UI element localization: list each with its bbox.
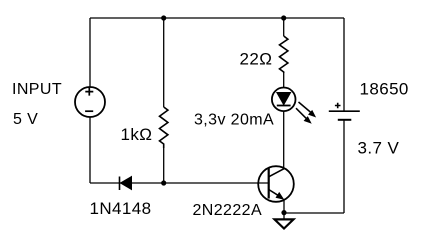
svg-text:5 V: 5 V [13,111,38,128]
emitter diagonal with arrow [269,190,281,198]
wire mid vertical lower [163,148,165,183]
battery B1 18650 [329,103,360,120]
wire emitter to node [283,199,285,219]
svg-text:22Ω: 22Ω [240,50,273,69]
wire left upper [89,18,91,87]
wire led branch upper [283,18,285,36]
wire led to collector [283,111,285,168]
node dot top mid [161,15,166,20]
node dot top led branch [281,15,286,20]
ground [275,219,294,228]
led light arrow 2 [296,108,307,119]
resistor R1 1k [160,107,168,148]
svg-text:18650: 18650 [360,80,409,99]
svg-text:3.7 V: 3.7 V [358,139,400,158]
diode D1 1N4148 [120,177,132,191]
node dot emitter [281,210,286,215]
wire bottom-left rail [90,182,269,184]
wire left lower [89,117,91,183]
wire right vertical upper [343,18,345,111]
collector diagonal [269,168,285,177]
wire top rail [90,17,344,19]
resistor R2 22 [280,36,288,73]
transistor Q1 2N2222A [258,166,294,202]
wire right vertical lower [343,120,345,213]
svg-text:2N2222A: 2N2222A [193,202,263,219]
node dot bottom mid [161,180,166,185]
svg-text:1N4148: 1N4148 [90,199,152,218]
svg-text:1kΩ: 1kΩ [121,125,153,144]
svg-text:INPUT: INPUT [12,81,62,98]
led light arrow 1 [299,102,312,113]
svg-text:3,3v 20mA: 3,3v 20mA [194,112,274,129]
LED D2 [272,88,315,124]
voltage source V1 [75,87,105,117]
wire mid vertical upper [163,18,165,107]
wire resistor22 to led [283,73,285,88]
wire bottom rail [284,212,344,214]
